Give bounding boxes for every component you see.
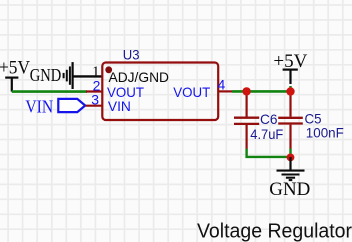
op-amp/regulator U3 body bbox=[102, 63, 218, 121]
wire +5V rail to U3 pin 2 (net +5V) bbox=[12, 90, 87, 93]
svg-text:+5V: +5V bbox=[0, 58, 30, 79]
svg-text:ADJ/GND: ADJ/GND bbox=[109, 69, 170, 85]
capacitor C6 plates bbox=[234, 117, 259, 119]
capacitor C5 plates bbox=[278, 117, 303, 119]
svg-text:4: 4 bbox=[218, 76, 226, 92]
wire GND to U3 pin 1 bbox=[73, 75, 102, 77]
power port GND (bottom) bbox=[269, 157, 310, 200]
junction at C6 tap bbox=[242, 87, 250, 95]
capacitor C6 top lead bbox=[246, 91, 248, 116]
svg-text:VIN: VIN bbox=[108, 98, 131, 114]
svg-text:VOUT: VOUT bbox=[173, 84, 210, 100]
U3 part dot bbox=[105, 66, 112, 73]
power port +5V (left) bbox=[0, 58, 30, 92]
capacitor C6 bottom lead bbox=[246, 125, 248, 149]
svg-text:GND: GND bbox=[269, 179, 310, 200]
wire +5V stem (green stub) bbox=[289, 86, 291, 91]
power port GND (left) bbox=[30, 62, 73, 89]
svg-text:3: 3 bbox=[91, 92, 99, 108]
port VIN bbox=[25, 97, 85, 117]
pin 4 stub bbox=[218, 90, 232, 92]
svg-text:GND: GND bbox=[30, 65, 62, 85]
junction at +5V stem bbox=[286, 87, 294, 95]
power port +5V (right) bbox=[273, 51, 307, 84]
svg-text:VIN: VIN bbox=[25, 97, 53, 117]
junction at GND stem bbox=[287, 154, 295, 162]
svg-text:Voltage Regulator: Voltage Regulator bbox=[197, 220, 352, 242]
svg-text:C6: C6 bbox=[260, 111, 278, 127]
svg-text:100nF: 100nF bbox=[306, 125, 344, 141]
wire C6 bottom to GND rail bbox=[247, 149, 291, 157]
capacitor C5 bottom lead bbox=[289, 125, 291, 149]
wire U3 pin 4 to +5V rail bbox=[232, 90, 291, 93]
pin 2 stub bbox=[86, 90, 102, 92]
svg-text:U3: U3 bbox=[123, 47, 140, 63]
wire C5 bottom (green stub) bbox=[289, 149, 291, 158]
pin 3 stub bbox=[86, 105, 103, 107]
capacitor C5 top lead bbox=[289, 91, 291, 116]
svg-text:4.7uF: 4.7uF bbox=[250, 126, 283, 142]
